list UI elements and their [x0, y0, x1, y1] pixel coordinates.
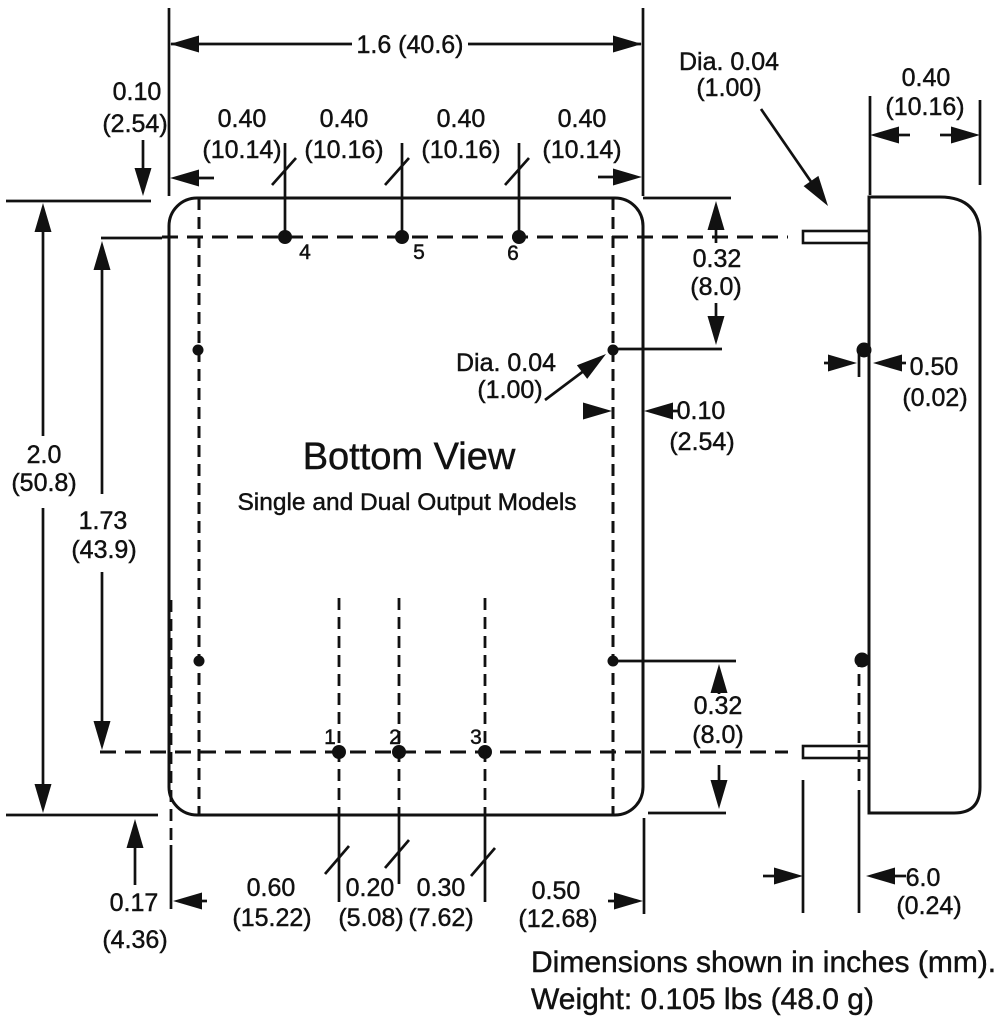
svg-text:3: 3 — [470, 726, 482, 749]
svg-text:1.73: 1.73 — [79, 507, 128, 535]
dimension 1.6 (40.6) overall width — [169, 8, 643, 196]
bottom-left edge extension line — [170, 600, 173, 909]
dimension 0.10 (2.54) right — [583, 397, 735, 456]
svg-text:(8.0): (8.0) — [690, 273, 741, 301]
svg-text:1.6 (40.6): 1.6 (40.6) — [356, 31, 463, 59]
svg-text:0.10: 0.10 — [113, 78, 162, 106]
svg-text:0.32: 0.32 — [693, 245, 742, 273]
svg-text:(15.22): (15.22) — [232, 904, 311, 932]
svg-text:2.0: 2.0 — [27, 441, 62, 469]
hidden edge dashed line right — [612, 198, 615, 815]
svg-text:5: 5 — [413, 241, 425, 264]
dimension 0.32 (8.0) bottom-right — [648, 664, 744, 813]
bottom-right edge extension line — [643, 818, 646, 914]
svg-text:6.0: 6.0 — [906, 864, 941, 892]
svg-text:(2.54): (2.54) — [102, 110, 167, 138]
note dimensions units — [531, 946, 996, 979]
svg-text:(12.68): (12.68) — [518, 905, 597, 933]
bottom pin row centerline — [100, 751, 788, 754]
label 0.20 (5.08) — [338, 874, 403, 932]
svg-text:(43.9): (43.9) — [71, 536, 136, 564]
svg-text:0.32: 0.32 — [694, 692, 743, 720]
svg-text:0.10: 0.10 — [677, 397, 726, 425]
leader Dia. 0.04 (1.00) side view — [679, 48, 828, 206]
svg-text:0.30: 0.30 — [417, 874, 466, 902]
svg-text:Dia. 0.04: Dia. 0.04 — [456, 349, 556, 377]
dimension 1.73 (43.9) pin row span — [71, 241, 136, 750]
leader Dia. 0.04 (1.00) main view — [456, 349, 606, 404]
svg-text:(8.0): (8.0) — [692, 721, 743, 749]
side view bottom pin — [803, 746, 869, 758]
svg-text:(0.02): (0.02) — [902, 384, 967, 412]
label 0.30 (7.62) — [408, 874, 473, 932]
svg-text:(10.16): (10.16) — [885, 93, 964, 121]
svg-text:6: 6 — [507, 242, 519, 265]
svg-text:0.40: 0.40 — [218, 105, 267, 133]
svg-text:1: 1 — [324, 726, 336, 749]
title Bottom View — [303, 436, 516, 478]
dimension 0.10 (2.54) top-left — [102, 78, 167, 196]
svg-text:0.50: 0.50 — [910, 353, 959, 381]
svg-text:Weight: 0.105 lbs (48.0 g): Weight: 0.105 lbs (48.0 g) — [531, 983, 874, 1016]
dimension 2.0 (50.8) overall height — [6, 201, 158, 815]
label 0.40 (10.16) third — [421, 105, 500, 164]
side view standoff pin bottom — [855, 653, 870, 788]
standoff pin bottom-right — [608, 656, 737, 667]
svg-text:(1.00): (1.00) — [696, 74, 761, 102]
svg-text:Single and Dual Output Models: Single and Dual Output Models — [237, 489, 576, 516]
svg-text:(4.36): (4.36) — [102, 926, 167, 954]
hidden edge dashed line left — [198, 198, 201, 815]
label 0.40 (10.16) second — [304, 105, 383, 164]
svg-text:(10.16): (10.16) — [304, 136, 383, 164]
svg-text:(0.24): (0.24) — [896, 892, 961, 920]
svg-text:(1.00): (1.00) — [477, 376, 542, 404]
svg-text:2: 2 — [389, 726, 401, 749]
svg-text:0.40: 0.40 — [437, 105, 486, 133]
svg-text:(2.54): (2.54) — [669, 428, 734, 456]
standoff pin top-right — [608, 345, 723, 356]
bottom chain dimension arrows — [173, 893, 643, 910]
label 0.40 (10.14) first — [202, 105, 281, 164]
top pin row centerline — [101, 237, 788, 238]
label 0.50 (12.68) — [518, 877, 597, 933]
svg-text:Dimensions shown in inches (mm: Dimensions shown in inches (mm). — [531, 946, 996, 979]
dimension 0.50 (0.02) pin thickness — [824, 348, 968, 412]
standoff pin top-left — [193, 345, 204, 356]
label 0.60 (15.22) — [232, 874, 311, 932]
pin 2 — [385, 598, 409, 884]
svg-text:(5.08): (5.08) — [338, 904, 403, 932]
svg-text:(10.16): (10.16) — [421, 136, 500, 164]
pin 3 — [470, 598, 495, 902]
svg-text:0.60: 0.60 — [247, 874, 296, 902]
svg-text:Dia. 0.04: Dia. 0.04 — [679, 48, 779, 76]
svg-text:0.17: 0.17 — [110, 889, 159, 917]
svg-text:0.20: 0.20 — [346, 874, 395, 902]
dimension 6.0 (0.24) pin length — [763, 780, 962, 920]
svg-text:0.50: 0.50 — [532, 877, 581, 905]
svg-text:Bottom View: Bottom View — [303, 436, 516, 478]
svg-text:4: 4 — [299, 241, 311, 264]
side view standoff pin top — [857, 343, 872, 358]
svg-text:(50.8): (50.8) — [11, 469, 76, 497]
pin 6 — [505, 143, 529, 265]
dimension 0.17 (4.36) bottom-left — [102, 819, 167, 954]
label 0.40 (10.14) fourth — [542, 105, 621, 164]
svg-text:(7.62): (7.62) — [408, 904, 473, 932]
standoff pin bottom-left — [194, 656, 205, 667]
subtitle Single and Dual Output Models — [237, 489, 576, 516]
svg-text:(10.14): (10.14) — [202, 136, 281, 164]
module body outline (bottom view) — [169, 198, 643, 815]
svg-text:0.40: 0.40 — [558, 105, 607, 133]
module body outline (side view) — [869, 197, 980, 813]
note weight — [531, 983, 874, 1016]
svg-text:(10.14): (10.14) — [542, 136, 621, 164]
pin 5 — [385, 143, 425, 264]
pin 4 — [272, 143, 311, 264]
dimension 0.32 (8.0) top-right — [643, 198, 742, 345]
svg-text:0.40: 0.40 — [902, 64, 951, 92]
side view top pin — [803, 231, 869, 243]
svg-text:0.40: 0.40 — [320, 105, 369, 133]
dimension 0.40 (10.16) side view depth — [870, 64, 980, 195]
top chain dimension arrows — [170, 169, 642, 187]
pin 1 — [324, 598, 349, 902]
